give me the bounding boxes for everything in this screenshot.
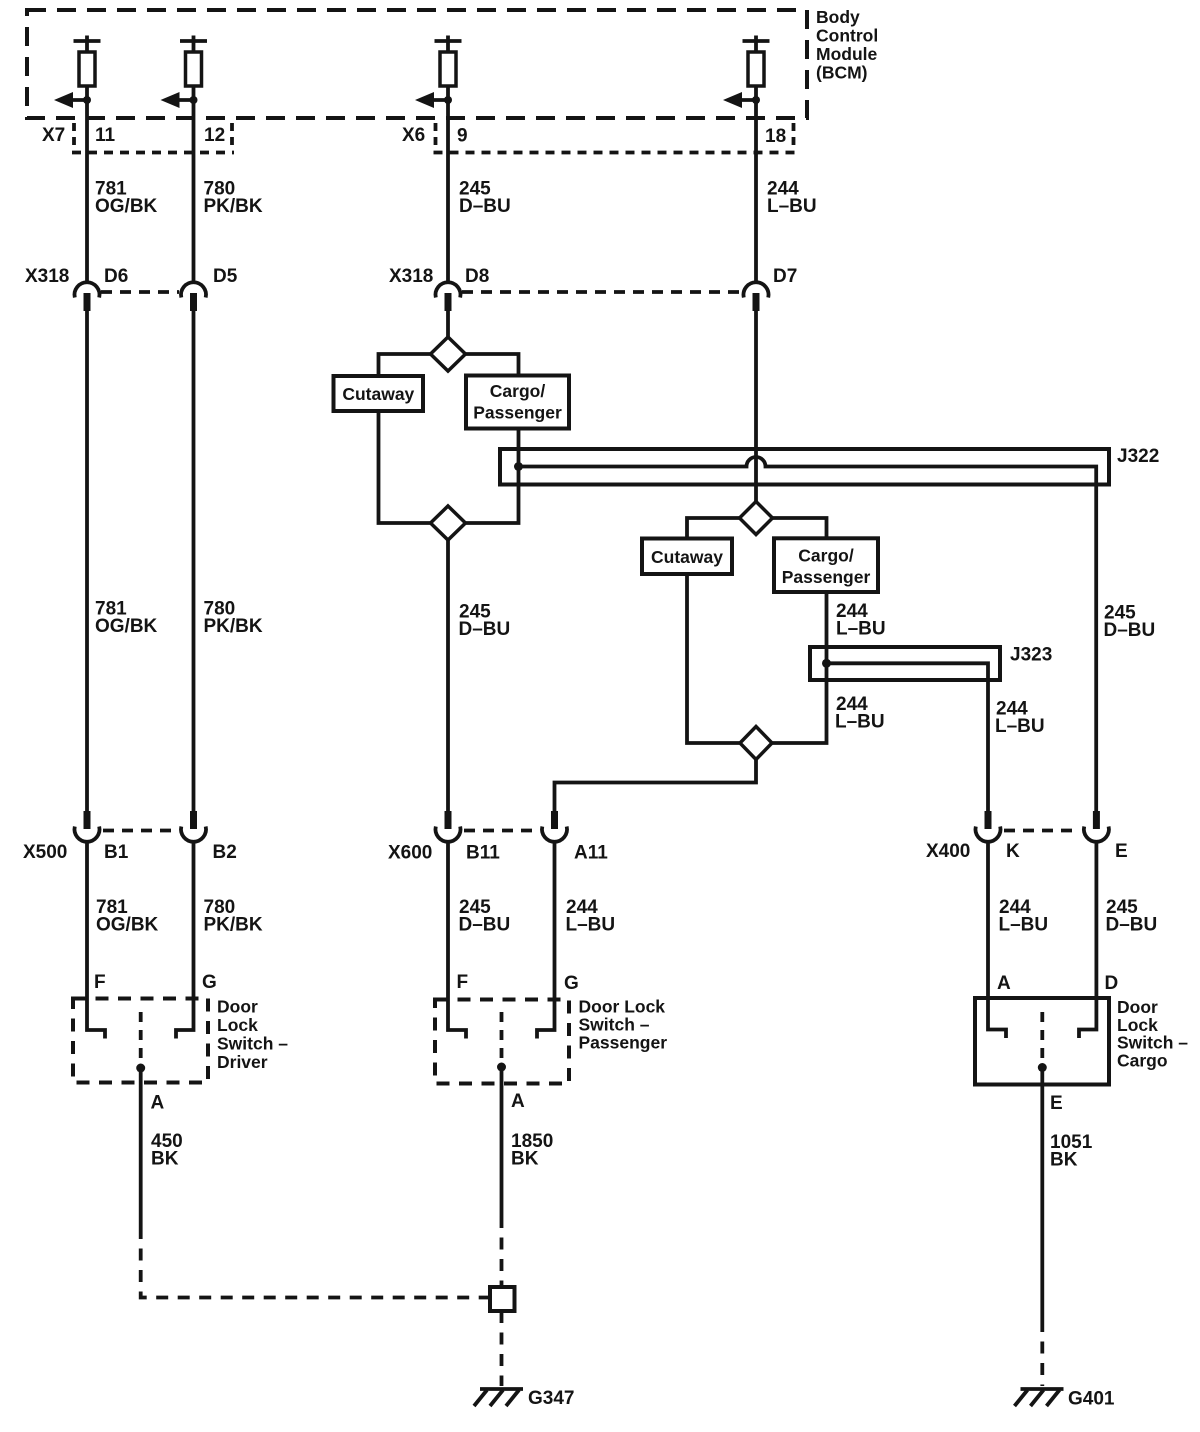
splice diamond S3 <box>740 502 773 535</box>
svg-text:X6: X6 <box>402 125 425 146</box>
dashed wire from splice to ground G347 <box>500 1311 504 1386</box>
pin E label (cargo) <box>1050 1093 1063 1114</box>
wire label 781 OG/BK (upper) <box>95 179 158 218</box>
svg-text:Passenger: Passenger <box>782 567 871 587</box>
BCM internal output arrow 4 <box>723 92 760 108</box>
X400 terminal K <box>975 811 1000 842</box>
svg-text:G: G <box>564 973 579 994</box>
svg-text:Control: Control <box>816 26 878 46</box>
pin A label (passenger) <box>511 1091 525 1112</box>
Body Control Module (BCM) dashed outline <box>27 10 807 118</box>
terminal E label <box>1115 841 1128 862</box>
splice diamond S4 <box>740 727 772 760</box>
ground G347 label <box>528 1388 574 1409</box>
svg-text:OG/BK: OG/BK <box>95 196 158 217</box>
wire Cutaway branch 2 down to diamond S4 <box>687 574 740 743</box>
pin A label (cargo) <box>997 973 1011 994</box>
svg-text:E: E <box>1115 841 1128 862</box>
svg-text:A: A <box>511 1091 525 1112</box>
svg-text:A11: A11 <box>574 843 608 864</box>
X600 terminal B11 <box>436 811 461 842</box>
svg-text:L–BU: L–BU <box>767 196 817 217</box>
splice diamond S2 <box>431 506 466 540</box>
svg-text:(BCM): (BCM) <box>816 63 868 83</box>
svg-text:PK/BK: PK/BK <box>204 915 263 936</box>
svg-text:D7: D7 <box>773 266 797 287</box>
pin A label (driver) <box>151 1093 165 1114</box>
X400 dashed link K-E <box>1004 829 1080 833</box>
svg-text:B11: B11 <box>466 843 500 864</box>
dashed ground run from passenger switch to splice <box>500 1216 504 1285</box>
X318 terminal D7 <box>743 282 768 311</box>
Door Lock Switch - Driver dashed box <box>73 999 208 1083</box>
svg-text:Cutaway: Cutaway <box>651 547 723 567</box>
BCM internal output arrow 3 <box>415 92 452 108</box>
J322 bus junction dot <box>514 462 523 471</box>
svg-text:Lock: Lock <box>217 1015 258 1035</box>
wire branch to Cargo/Passenger option box 1 <box>466 354 519 376</box>
BCM internal output arrow 1 <box>54 92 91 108</box>
ground symbol G401 <box>1015 1389 1064 1406</box>
svg-text:J323: J323 <box>1010 645 1052 666</box>
svg-text:L–BU: L–BU <box>995 716 1045 737</box>
Door Lock Switch - Cargo name <box>1117 997 1188 1071</box>
svg-text:E: E <box>1050 1093 1063 1114</box>
svg-text:BK: BK <box>511 1149 539 1170</box>
BCM internal driver symbol 2 (pin 12) <box>180 36 207 87</box>
ground symbol G347 <box>474 1389 523 1406</box>
wire 245 D-BU down to X600 B11 <box>446 540 450 811</box>
wire B2 to driver switch pin G <box>176 843 194 1039</box>
svg-text:Cutaway: Cutaway <box>342 384 414 404</box>
X318 terminal D8 <box>436 282 461 311</box>
cargo switch junction dot <box>1038 1063 1047 1072</box>
svg-text:G401: G401 <box>1068 1389 1115 1410</box>
dashed wire to ground G401 <box>1040 1320 1044 1386</box>
svg-text:Body: Body <box>816 7 860 27</box>
svg-text:G347: G347 <box>528 1388 574 1409</box>
X400 terminal E <box>1084 811 1109 842</box>
pin G label (passenger) <box>564 973 579 994</box>
svg-text:X7: X7 <box>42 125 65 146</box>
svg-text:X318: X318 <box>389 266 433 287</box>
terminal K label <box>1006 841 1020 862</box>
dashed ground run from driver switch to splice <box>141 1227 488 1298</box>
svg-text:D–BU: D–BU <box>459 196 511 217</box>
J322 label <box>1117 446 1159 467</box>
Door Lock Switch - Passenger dashed box <box>435 1000 569 1084</box>
svg-text:F: F <box>457 972 469 993</box>
svg-text:Cargo/: Cargo/ <box>490 381 546 401</box>
connector X6 dashed outline <box>434 123 796 153</box>
J322 bus bar with hop over 244 wire, continuing to X400 E <box>519 457 1097 811</box>
svg-text:9: 9 <box>457 126 468 147</box>
svg-text:18: 18 <box>765 126 786 147</box>
wire label 781 OG/BK (middle) <box>95 599 158 638</box>
svg-text:X318: X318 <box>25 266 69 287</box>
svg-text:Door: Door <box>217 997 258 1017</box>
wire label 781 OG/BK (lower) <box>96 897 159 936</box>
svg-text:F: F <box>94 972 106 993</box>
splice pack J323 box <box>810 647 1000 680</box>
wire K to cargo switch pin A <box>988 843 1006 1039</box>
Cargo/Passenger option box 2 <box>774 538 878 592</box>
wire branch to Cutaway option box 2 <box>687 518 740 539</box>
svg-text:D: D <box>1105 973 1119 994</box>
X600 terminal A11 <box>542 811 567 842</box>
pin F label (passenger) <box>457 972 469 993</box>
terminal A11 label <box>574 843 608 864</box>
wire label 245 D-BU (middle) <box>459 602 511 641</box>
J323 bus bar continuing down to X400 K <box>827 663 989 811</box>
driver switch common stem (dashed) <box>139 1012 143 1062</box>
svg-text:X600: X600 <box>388 843 432 864</box>
svg-text:Cargo: Cargo <box>1117 1051 1168 1071</box>
svg-text:Switch –: Switch – <box>217 1034 288 1054</box>
wire E to cargo switch pin D <box>1079 843 1096 1039</box>
svg-text:Switch –: Switch – <box>579 1015 650 1035</box>
svg-text:D8: D8 <box>465 266 489 287</box>
svg-text:OG/BK: OG/BK <box>95 616 158 637</box>
wire 1850 BK from passenger switch <box>500 1067 504 1216</box>
J323 label <box>1010 645 1052 666</box>
svg-text:D–BU: D–BU <box>459 619 511 640</box>
wire 781 OG/BK middle run <box>85 311 89 811</box>
pin D label (cargo) <box>1105 973 1119 994</box>
svg-text:B2: B2 <box>213 842 237 863</box>
driver switch junction dot <box>136 1064 145 1073</box>
wire Cargo/Passenger branch 2 through J323 down to diamond S4 <box>772 592 827 743</box>
svg-text:D–BU: D–BU <box>1104 620 1156 641</box>
svg-text:A: A <box>997 973 1011 994</box>
Cargo/Passenger option box 1 <box>466 376 569 429</box>
passenger switch common stem (dashed) <box>500 1012 504 1061</box>
J323 bus junction dot <box>822 659 831 668</box>
wire 244 L-BU from S4 to X600 A11 <box>555 760 757 812</box>
BCM internal driver symbol 1 (pin 11) <box>74 36 101 87</box>
wire F to passenger switch <box>448 843 466 1039</box>
Cutaway option box 2 <box>642 539 732 575</box>
terminal D6 label <box>104 266 128 287</box>
wire label 780 PK/BK (lower) <box>204 897 263 936</box>
svg-text:BK: BK <box>151 1149 179 1170</box>
wire 245 D-BU from D8 down to splice diamond <box>446 311 450 340</box>
connector X400 label <box>926 841 970 862</box>
connector X600 label <box>388 843 432 864</box>
X318 dashed link D8-D7 <box>462 290 742 294</box>
X318 terminal D5 <box>181 282 206 311</box>
wire label 245 D-BU (upper) <box>459 179 511 218</box>
wire label 244 L-BU (lower) <box>566 897 616 936</box>
svg-text:L–BU: L–BU <box>999 915 1049 936</box>
wire branch to Cutaway option box 1 <box>379 354 431 376</box>
svg-text:Driver: Driver <box>217 1052 268 1072</box>
pin F label (driver) <box>94 972 106 993</box>
X500 dashed link B1-B2 <box>103 829 178 833</box>
svg-text:D6: D6 <box>104 266 128 287</box>
terminal D7 label <box>773 266 797 287</box>
pin 11 label <box>95 125 116 146</box>
wire label 245 D-BU (lower) <box>459 897 511 936</box>
Cutaway option box 1 <box>334 376 424 411</box>
connector X7 dashed outline <box>72 123 234 153</box>
svg-text:Passenger: Passenger <box>473 403 562 423</box>
terminal B11 label <box>466 843 500 864</box>
connector X318 label (middle) <box>389 266 433 287</box>
ground G401 label <box>1068 1389 1115 1410</box>
wire 780 PK/BK from BCM pin 12 to X318 D5 <box>192 86 196 283</box>
X600 dashed link B11-A11 <box>464 829 539 833</box>
svg-text:L–BU: L–BU <box>566 915 616 936</box>
X500 terminal B2 <box>181 811 206 842</box>
wire label 245 D-BU (cargo right) <box>1106 897 1158 936</box>
wire 780 PK/BK middle run <box>192 311 196 811</box>
pin 9 label <box>457 126 468 147</box>
connector X7 label <box>42 125 65 146</box>
X500 terminal B1 <box>75 811 100 842</box>
BCM internal driver symbol 4 (pin 18) <box>743 36 770 87</box>
wire 450 BK from driver switch <box>139 1068 143 1227</box>
wire label 1850 BK <box>511 1131 553 1170</box>
wire label 780 PK/BK (upper) <box>204 179 263 218</box>
terminal D8 label <box>465 266 489 287</box>
svg-text:X400: X400 <box>926 841 970 862</box>
passenger switch junction dot <box>497 1063 506 1072</box>
cargo switch common stem (dashed) <box>1040 1012 1044 1060</box>
splice diamond S1 <box>431 337 466 371</box>
wire label 244 L-BU (above J323) <box>836 601 886 640</box>
wire G to passenger switch <box>537 843 555 1039</box>
wire 781 OG/BK from BCM pin 11 to X318 D6 <box>85 86 89 283</box>
wire label 244 L-BU (cargo left) <box>999 897 1049 936</box>
terminal D5 label <box>213 266 238 287</box>
svg-text:Module: Module <box>816 44 878 64</box>
wire label 244 L-BU (upper) <box>767 179 817 218</box>
pin 12 label <box>204 125 225 146</box>
wire branch to Cargo/Passenger option box 2 <box>773 518 827 538</box>
svg-text:L–BU: L–BU <box>835 712 885 733</box>
svg-text:11: 11 <box>95 125 116 146</box>
Door Lock Switch - Driver name <box>217 997 288 1073</box>
svg-text:12: 12 <box>204 125 225 146</box>
svg-text:Switch –: Switch – <box>1117 1033 1188 1053</box>
splice pack J322 box <box>500 449 1109 485</box>
svg-text:BK: BK <box>1050 1150 1078 1171</box>
wire label 244 L-BU (below J323 left) <box>835 694 885 733</box>
svg-text:Door Lock: Door Lock <box>579 997 666 1017</box>
svg-text:PK/BK: PK/BK <box>204 616 263 637</box>
X318 terminal D6 <box>75 282 100 311</box>
svg-text:OG/BK: OG/BK <box>96 915 159 936</box>
ground splice box <box>490 1287 515 1311</box>
svg-text:Door: Door <box>1117 997 1158 1017</box>
wire label 244 L-BU (below J323 right) <box>995 699 1045 738</box>
svg-text:A: A <box>151 1093 165 1114</box>
wire label 245 D-BU (right middle) <box>1104 603 1156 642</box>
wire 244 L-BU from BCM pin 18 to X318 D7 <box>754 86 758 283</box>
svg-text:Passenger: Passenger <box>579 1033 668 1053</box>
svg-text:D5: D5 <box>213 266 238 287</box>
pin G label (driver) <box>202 972 217 993</box>
svg-text:D–BU: D–BU <box>459 915 511 936</box>
svg-text:K: K <box>1006 841 1020 862</box>
connector X318 label (left) <box>25 266 69 287</box>
BCM internal output arrow 2 <box>161 92 198 108</box>
wire 245 D-BU from BCM pin 9 to X318 D8 <box>446 86 450 283</box>
Door Lock Switch - Cargo solid box <box>975 998 1109 1085</box>
pin 18 label <box>765 126 786 147</box>
wire label 780 PK/BK (middle) <box>204 599 263 638</box>
wire Cargo/Passenger branch 1 through J322 down to rejoin diamond <box>466 429 519 524</box>
wire B1 to driver switch pin F <box>87 843 105 1039</box>
wire 244 L-BU from D7 down through J322 to splice diamond S3 <box>754 311 758 502</box>
BCM internal driver symbol 3 (pin 9) <box>435 36 462 87</box>
wire Cutaway branch 1 down to rejoin diamond <box>379 411 431 523</box>
wire 1051 BK from cargo switch <box>1040 1068 1044 1321</box>
svg-text:Cargo/: Cargo/ <box>798 546 854 566</box>
svg-text:J322: J322 <box>1117 446 1159 467</box>
svg-text:PK/BK: PK/BK <box>204 196 263 217</box>
wire label 1051 BK <box>1050 1132 1093 1171</box>
svg-text:D–BU: D–BU <box>1106 915 1158 936</box>
svg-text:B1: B1 <box>104 842 129 863</box>
svg-text:G: G <box>202 972 217 993</box>
terminal B2 label <box>213 842 237 863</box>
Door Lock Switch - Passenger name <box>579 997 668 1053</box>
svg-text:X500: X500 <box>23 842 67 863</box>
X318 dashed link D6-D5 <box>101 290 179 294</box>
wire label 450 BK <box>151 1131 183 1170</box>
connector X500 label <box>23 842 67 863</box>
terminal B1 label <box>104 842 129 863</box>
svg-text:L–BU: L–BU <box>836 619 886 640</box>
connector X6 label <box>402 125 425 146</box>
BCM name label <box>816 7 878 83</box>
